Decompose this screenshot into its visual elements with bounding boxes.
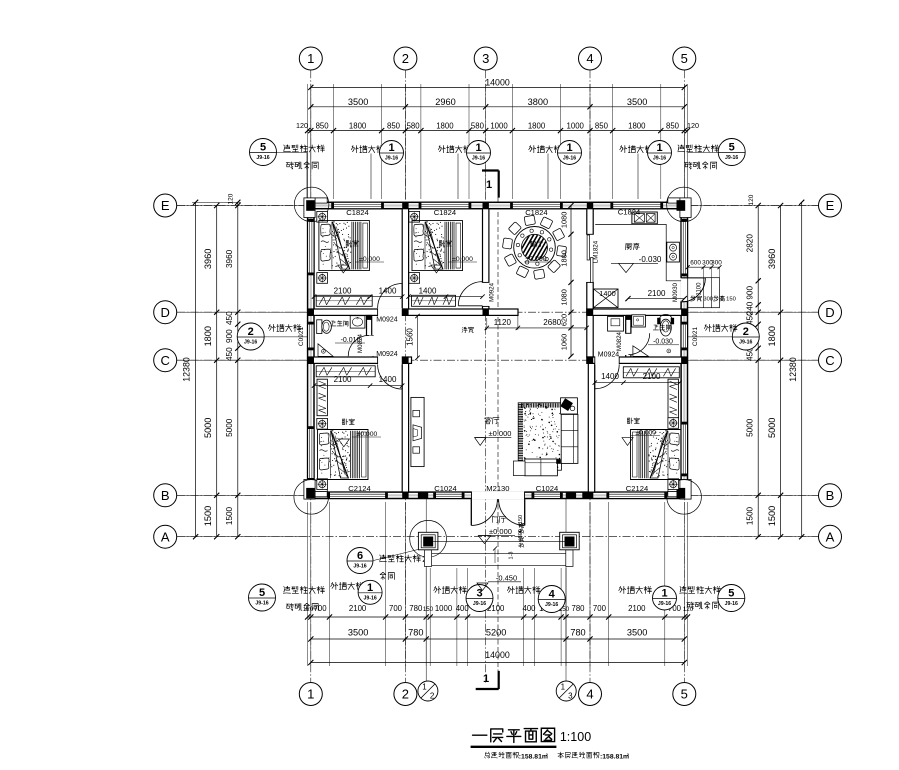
svg-text:1-3: 1-3 (509, 552, 515, 560)
svg-text:1800: 1800 (560, 250, 569, 266)
svg-text:14000: 14000 (485, 77, 510, 87)
svg-text:300,: 300, (703, 296, 715, 302)
svg-text:B: B (826, 488, 835, 503)
svg-text:4: 4 (586, 51, 593, 66)
svg-text:1800: 1800 (628, 122, 646, 131)
svg-text:1100: 1100 (697, 282, 703, 296)
svg-text:780: 780 (408, 628, 423, 638)
svg-text:J9-16: J9-16 (563, 156, 576, 162)
svg-text:12380: 12380 (788, 357, 798, 382)
svg-text:1500: 1500 (767, 506, 777, 526)
svg-text:C0921: C0921 (692, 327, 699, 347)
svg-text:3500: 3500 (348, 97, 368, 107)
svg-text:1500: 1500 (203, 506, 213, 526)
svg-text:C0921: C0921 (298, 327, 305, 347)
svg-text:1800: 1800 (436, 122, 454, 131)
svg-text:150: 150 (726, 296, 736, 302)
svg-text:2960: 2960 (435, 97, 455, 107)
svg-text:5000: 5000 (203, 418, 213, 438)
svg-text:5000: 5000 (745, 418, 754, 437)
svg-text:M0930: M0930 (672, 282, 679, 301)
svg-text:120: 120 (228, 193, 235, 204)
svg-text:J9-16: J9-16 (255, 601, 268, 607)
svg-text:±0.000: ±0.000 (635, 429, 656, 436)
svg-text:J9-16: J9-16 (472, 156, 485, 162)
svg-text:1400: 1400 (419, 286, 437, 295)
svg-text:850: 850 (387, 122, 401, 131)
svg-text:400: 400 (456, 604, 470, 613)
svg-text:1: 1 (483, 673, 489, 685)
svg-text:5: 5 (259, 587, 265, 599)
svg-text:J9-16: J9-16 (353, 564, 366, 570)
svg-text:3: 3 (482, 51, 489, 66)
svg-text:J9-16: J9-16 (653, 156, 666, 162)
svg-text:450: 450 (225, 347, 234, 361)
svg-text:1560: 1560 (406, 328, 415, 346)
svg-text:620: 620 (560, 314, 569, 326)
svg-text:D: D (825, 305, 834, 320)
svg-text:±0.000: ±0.000 (489, 429, 512, 438)
svg-text:5: 5 (681, 687, 688, 702)
svg-text:C1024: C1024 (434, 484, 456, 493)
svg-text:C1824: C1824 (434, 208, 456, 217)
svg-text:450: 450 (225, 311, 234, 325)
svg-text:M0924: M0924 (376, 351, 398, 358)
svg-text:3500: 3500 (627, 628, 647, 638)
svg-text:600: 600 (690, 260, 701, 267)
svg-text:C1824: C1824 (618, 207, 640, 216)
svg-text:1400: 1400 (599, 289, 615, 298)
svg-text:J9-16: J9-16 (473, 601, 486, 607)
svg-text:2: 2 (248, 326, 254, 338)
svg-text:J9-16: J9-16 (385, 156, 398, 162)
svg-text:2100: 2100 (643, 372, 661, 381)
svg-text:850: 850 (595, 122, 609, 131)
svg-text:J9-16: J9-16 (725, 601, 738, 607)
svg-text:2100: 2100 (334, 375, 352, 384)
svg-text:1400: 1400 (379, 375, 397, 384)
svg-text:C2124: C2124 (626, 484, 648, 493)
svg-text:1000: 1000 (490, 122, 508, 131)
svg-text:14000: 14000 (485, 650, 510, 660)
svg-text:2820: 2820 (745, 234, 754, 253)
svg-text:3800: 3800 (528, 97, 548, 107)
svg-text:C1824: C1824 (346, 208, 368, 217)
svg-text:M0824: M0824 (616, 331, 623, 350)
svg-text:120: 120 (296, 121, 308, 130)
svg-text:M0924: M0924 (376, 316, 398, 323)
svg-text::158.81m: :158.81m (600, 754, 629, 761)
svg-text:J9-16: J9-16 (725, 155, 738, 161)
svg-text:2: 2 (430, 692, 435, 701)
svg-text:900: 900 (745, 286, 754, 300)
svg-text:900: 900 (225, 329, 234, 343)
svg-text:6: 6 (357, 550, 363, 562)
svg-text:580: 580 (407, 122, 421, 131)
svg-text:4: 4 (586, 687, 593, 702)
svg-text:E: E (826, 198, 835, 213)
svg-text:J9-16: J9-16 (739, 340, 752, 346)
svg-text:5: 5 (681, 51, 688, 66)
svg-text:150: 150 (518, 515, 524, 524)
svg-text:B: B (161, 488, 170, 503)
svg-text:M0824: M0824 (357, 333, 364, 352)
svg-text:780: 780 (409, 604, 423, 613)
svg-text:850: 850 (316, 122, 330, 131)
svg-text:J9-16: J9-16 (256, 155, 269, 161)
svg-text:3: 3 (568, 692, 573, 701)
svg-text:1: 1 (566, 142, 572, 154)
svg-text:E: E (161, 198, 170, 213)
svg-text:1400: 1400 (379, 286, 397, 295)
svg-text:300,: 300, (518, 527, 524, 538)
svg-text:1500: 1500 (745, 506, 754, 525)
svg-text:J9-16: J9-16 (658, 601, 671, 607)
svg-text:M0924: M0924 (489, 282, 496, 301)
svg-text:1000: 1000 (435, 604, 453, 613)
svg-text:1: 1 (307, 51, 314, 66)
svg-text:5: 5 (260, 142, 266, 154)
svg-text:1: 1 (422, 683, 427, 692)
svg-text:C1024: C1024 (536, 484, 558, 493)
svg-text:-0.030: -0.030 (639, 255, 662, 264)
svg-text:580: 580 (471, 122, 485, 131)
svg-text:12380: 12380 (182, 357, 192, 382)
svg-text:2100: 2100 (628, 604, 646, 613)
svg-text:M2130: M2130 (486, 484, 509, 493)
svg-text:±0.000: ±0.000 (489, 527, 512, 536)
svg-text:J9-16: J9-16 (363, 595, 376, 601)
svg-text:C: C (825, 353, 834, 368)
svg-text:700: 700 (389, 604, 403, 613)
svg-text:1: 1 (475, 142, 481, 154)
svg-text:-0.450: -0.450 (496, 573, 517, 582)
svg-text:3500: 3500 (348, 628, 368, 638)
svg-text:1: 1 (561, 683, 566, 692)
svg-text:4: 4 (549, 589, 556, 601)
svg-text:1800: 1800 (767, 326, 777, 346)
svg-text:1120: 1120 (494, 318, 512, 327)
svg-text:300: 300 (711, 260, 722, 267)
svg-text:1:100: 1:100 (560, 730, 591, 744)
svg-text:120: 120 (748, 194, 755, 205)
svg-text:3500: 3500 (627, 97, 647, 107)
svg-text:A: A (161, 529, 170, 544)
svg-text:-0.030: -0.030 (653, 338, 673, 345)
svg-text:1400: 1400 (601, 372, 619, 381)
svg-text:M0924: M0924 (598, 351, 620, 358)
svg-text:1800: 1800 (349, 122, 367, 131)
svg-text:5: 5 (729, 142, 735, 154)
svg-text:1800: 1800 (203, 326, 213, 346)
svg-text:780: 780 (571, 604, 585, 613)
svg-text:D: D (161, 305, 170, 320)
svg-text:1: 1 (656, 142, 662, 154)
svg-text:C2124: C2124 (348, 484, 370, 493)
svg-text:LM1824: LM1824 (593, 240, 600, 263)
svg-text:2100: 2100 (349, 604, 367, 613)
svg-text:2: 2 (743, 326, 749, 338)
svg-text:400: 400 (522, 604, 536, 613)
svg-text:120: 120 (687, 121, 699, 130)
svg-text:C: C (161, 353, 170, 368)
svg-text:1: 1 (367, 582, 373, 594)
svg-text:150: 150 (423, 606, 434, 613)
svg-text:1: 1 (661, 588, 667, 600)
svg-text::158.81m: :158.81m (519, 754, 548, 761)
svg-text:2100: 2100 (648, 289, 666, 298)
svg-text:5000: 5000 (767, 418, 777, 438)
svg-text:1: 1 (388, 142, 394, 154)
svg-text:1060: 1060 (560, 334, 569, 350)
svg-text:1500: 1500 (225, 506, 234, 525)
svg-text:780: 780 (570, 628, 585, 638)
svg-text:850: 850 (666, 122, 680, 131)
svg-text:5200: 5200 (486, 628, 506, 638)
svg-text:3960: 3960 (767, 249, 777, 269)
svg-text:1080: 1080 (560, 212, 569, 228)
svg-text:2100: 2100 (334, 286, 352, 295)
svg-text:1800: 1800 (528, 122, 546, 131)
svg-text:1: 1 (486, 179, 492, 191)
svg-text:2: 2 (402, 687, 409, 702)
svg-text:3960: 3960 (225, 249, 234, 268)
svg-text:A: A (826, 529, 835, 544)
svg-text:700: 700 (593, 604, 607, 613)
svg-text:C1824: C1824 (525, 208, 547, 217)
svg-text:1080: 1080 (560, 289, 569, 305)
svg-text:5: 5 (728, 588, 734, 600)
svg-text:J9-16: J9-16 (545, 602, 558, 608)
svg-text:3960: 3960 (203, 249, 213, 269)
svg-text:2: 2 (402, 51, 409, 66)
svg-text:±0.000: ±0.000 (357, 431, 378, 438)
svg-text:1000: 1000 (567, 122, 585, 131)
svg-text:J9-16: J9-16 (244, 340, 257, 346)
svg-text:5000: 5000 (225, 418, 234, 437)
svg-text:1: 1 (307, 687, 314, 702)
